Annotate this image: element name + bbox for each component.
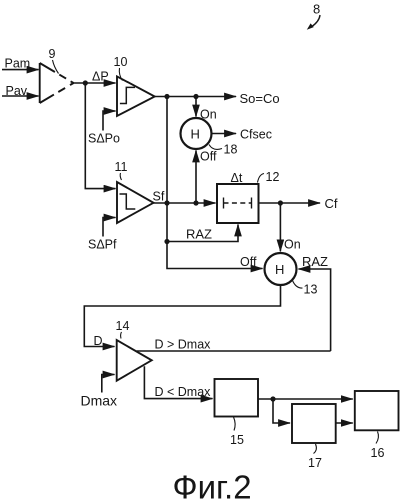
timing symbol inside 12: [224, 198, 252, 209]
svg-text:11: 11: [115, 160, 128, 174]
wire: On input to H18: [196, 97, 217, 122]
svg-text:H: H: [275, 262, 284, 277]
label 10 leader: [114, 55, 128, 81]
wire: block 17 output to block 16: [336, 422, 353, 424]
wire: delay 12 output Cf: [259, 196, 338, 211]
svg-text:17: 17: [308, 456, 322, 470]
node Dmax input: [81, 375, 118, 409]
block 16: [355, 391, 399, 430]
label 16 leader: [371, 432, 385, 461]
comparator 14: [117, 340, 152, 381]
svg-text:SΔPf: SΔPf: [88, 238, 117, 252]
wire: branch to block 17: [273, 399, 290, 423]
wire: comparator 10 output So=Co: [155, 91, 280, 106]
svg-text:On: On: [284, 238, 301, 252]
wire: block 15 output to block 16: [258, 396, 353, 401]
comparator 10: [117, 76, 155, 116]
svg-text:RAZ: RAZ: [186, 227, 212, 242]
reference numeral 8: [307, 2, 320, 30]
svg-text:16: 16: [371, 446, 385, 460]
wire: dP down to comparator 11: [85, 83, 115, 189]
node Pam input: [2, 57, 39, 71]
wire: RAZ input to H13 from D>Dmax: [299, 254, 331, 351]
wire: So branch down through Sf to Off of H13: [164, 97, 262, 270]
wire: D>Dmax to RAZ of H13: [137, 338, 331, 352]
node SdPo input: [88, 111, 120, 146]
svg-text:14: 14: [116, 319, 130, 333]
comparator 11: [117, 182, 154, 223]
svg-text:Pam: Pam: [5, 57, 31, 71]
block 17: [292, 404, 336, 443]
label 13 leader: [293, 281, 318, 297]
wire: H18 output Cfsec: [212, 128, 272, 142]
label 15 leader: [230, 417, 244, 447]
svg-text:Δt: Δt: [231, 171, 243, 185]
hysteresis block H 13: [265, 253, 297, 285]
svg-text:Фиг.2: Фиг.2: [173, 469, 252, 500]
wire: comparator 11 output Sf to delay 12: [153, 190, 216, 206]
svg-text:H: H: [191, 127, 200, 142]
svg-text:Sf: Sf: [153, 190, 165, 204]
svg-text:Off: Off: [200, 150, 217, 164]
wire: D<Dmax to block 15: [144, 366, 212, 399]
label 14 leader: [116, 319, 130, 339]
svg-text:8: 8: [313, 2, 320, 17]
svg-text:D < Dmax: D < Dmax: [155, 385, 212, 399]
svg-text:9: 9: [49, 47, 56, 61]
svg-text:Cf: Cf: [325, 196, 338, 211]
wire: On input to H13: [280, 203, 300, 252]
svg-text:D: D: [94, 334, 103, 348]
hysteresis block H 18: [181, 118, 212, 149]
label 9 leader: [49, 47, 59, 74]
subtractor amplifier 9: [40, 63, 74, 103]
wire: amp9 output, node dP: [74, 70, 116, 86]
node Pav input: [2, 84, 39, 98]
delay block 12: [217, 171, 259, 223]
svg-text:10: 10: [114, 55, 128, 69]
wire: Off input to H18 from Sf line: [196, 150, 217, 204]
label 17 leader: [308, 444, 322, 470]
svg-text:RAZ: RAZ: [302, 254, 328, 269]
svg-text:SΔPo: SΔPo: [88, 132, 120, 146]
svg-text:So=Co: So=Co: [240, 91, 280, 106]
node SdPf input: [88, 218, 117, 252]
svg-text:ΔP: ΔP: [92, 70, 109, 84]
hysteresis step of comparator 10: [120, 87, 135, 103]
svg-text:Off: Off: [240, 255, 257, 269]
wire: RAZ to delay 12: [167, 225, 238, 242]
wire: H13 output feedback to D input of comparator 14: [84, 285, 280, 348]
label 11 leader: [115, 160, 128, 180]
svg-text:18: 18: [224, 143, 238, 157]
svg-text:13: 13: [304, 283, 318, 297]
svg-text:Dmax: Dmax: [81, 393, 118, 409]
svg-text:12: 12: [266, 170, 280, 184]
svg-text:Cfsec: Cfsec: [240, 128, 272, 142]
block 15: [215, 379, 259, 417]
svg-text:15: 15: [230, 433, 244, 447]
label 18 leader: [209, 143, 237, 157]
svg-text:D > Dmax: D > Dmax: [155, 338, 212, 352]
hysteresis step of comparator 11: [120, 194, 136, 209]
label 12 leader: [258, 170, 280, 184]
